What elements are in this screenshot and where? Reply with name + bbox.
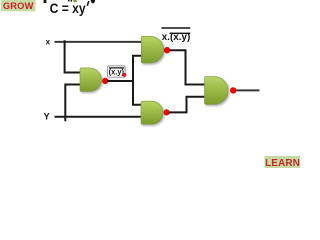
wire: U1 output to vertical bus [107, 80, 134, 82]
wire: vertical bus feeding gate2 and gate3 [133, 56, 143, 105]
wire: U2 output down to U4 upper input [170, 50, 205, 84]
gate U3 (NAND bottom) [141, 101, 163, 124]
svg-text:Y: Y [44, 111, 50, 121]
node dot U1 output [102, 78, 108, 84]
gate U1 (NAND left) [80, 68, 101, 92]
label box (x.y) with overline [108, 66, 125, 77]
wire: final output [236, 89, 259, 91]
cut-off text remnants of previous equation line at top edge [44, 0, 96, 3]
svg-text:(x.y): (x.y) [109, 67, 125, 76]
label x.(x.y) with overlines [162, 28, 191, 43]
node dot U3 output [164, 109, 170, 115]
gate U2 (NAND top-right) [141, 36, 163, 63]
gate U4 (NAND final) [205, 77, 229, 105]
wire: gate1 lower input up from Y wire [65, 85, 81, 122]
wire: x branch down to gate1 upper input [65, 40, 81, 72]
svg-text:C = xy: C = xy [50, 0, 86, 16]
wire: Y input horizontal into gate3 lower input [55, 116, 143, 118]
equation label C = xy' [50, 0, 89, 16]
svg-text:x: x [46, 37, 51, 46]
svg-text:LEARN: LEARN [265, 158, 300, 168]
GROW logo badge [1, 0, 36, 11]
wire: U3 output up to U4 lower input [169, 97, 205, 113]
node dot small on label [123, 73, 127, 77]
svg-text:GROW: GROW [3, 1, 34, 11]
LEARN logo badge [265, 156, 301, 169]
node dot U2 output [164, 47, 170, 53]
wire: x input horizontal [55, 41, 144, 43]
node dot U4 output [230, 87, 236, 93]
